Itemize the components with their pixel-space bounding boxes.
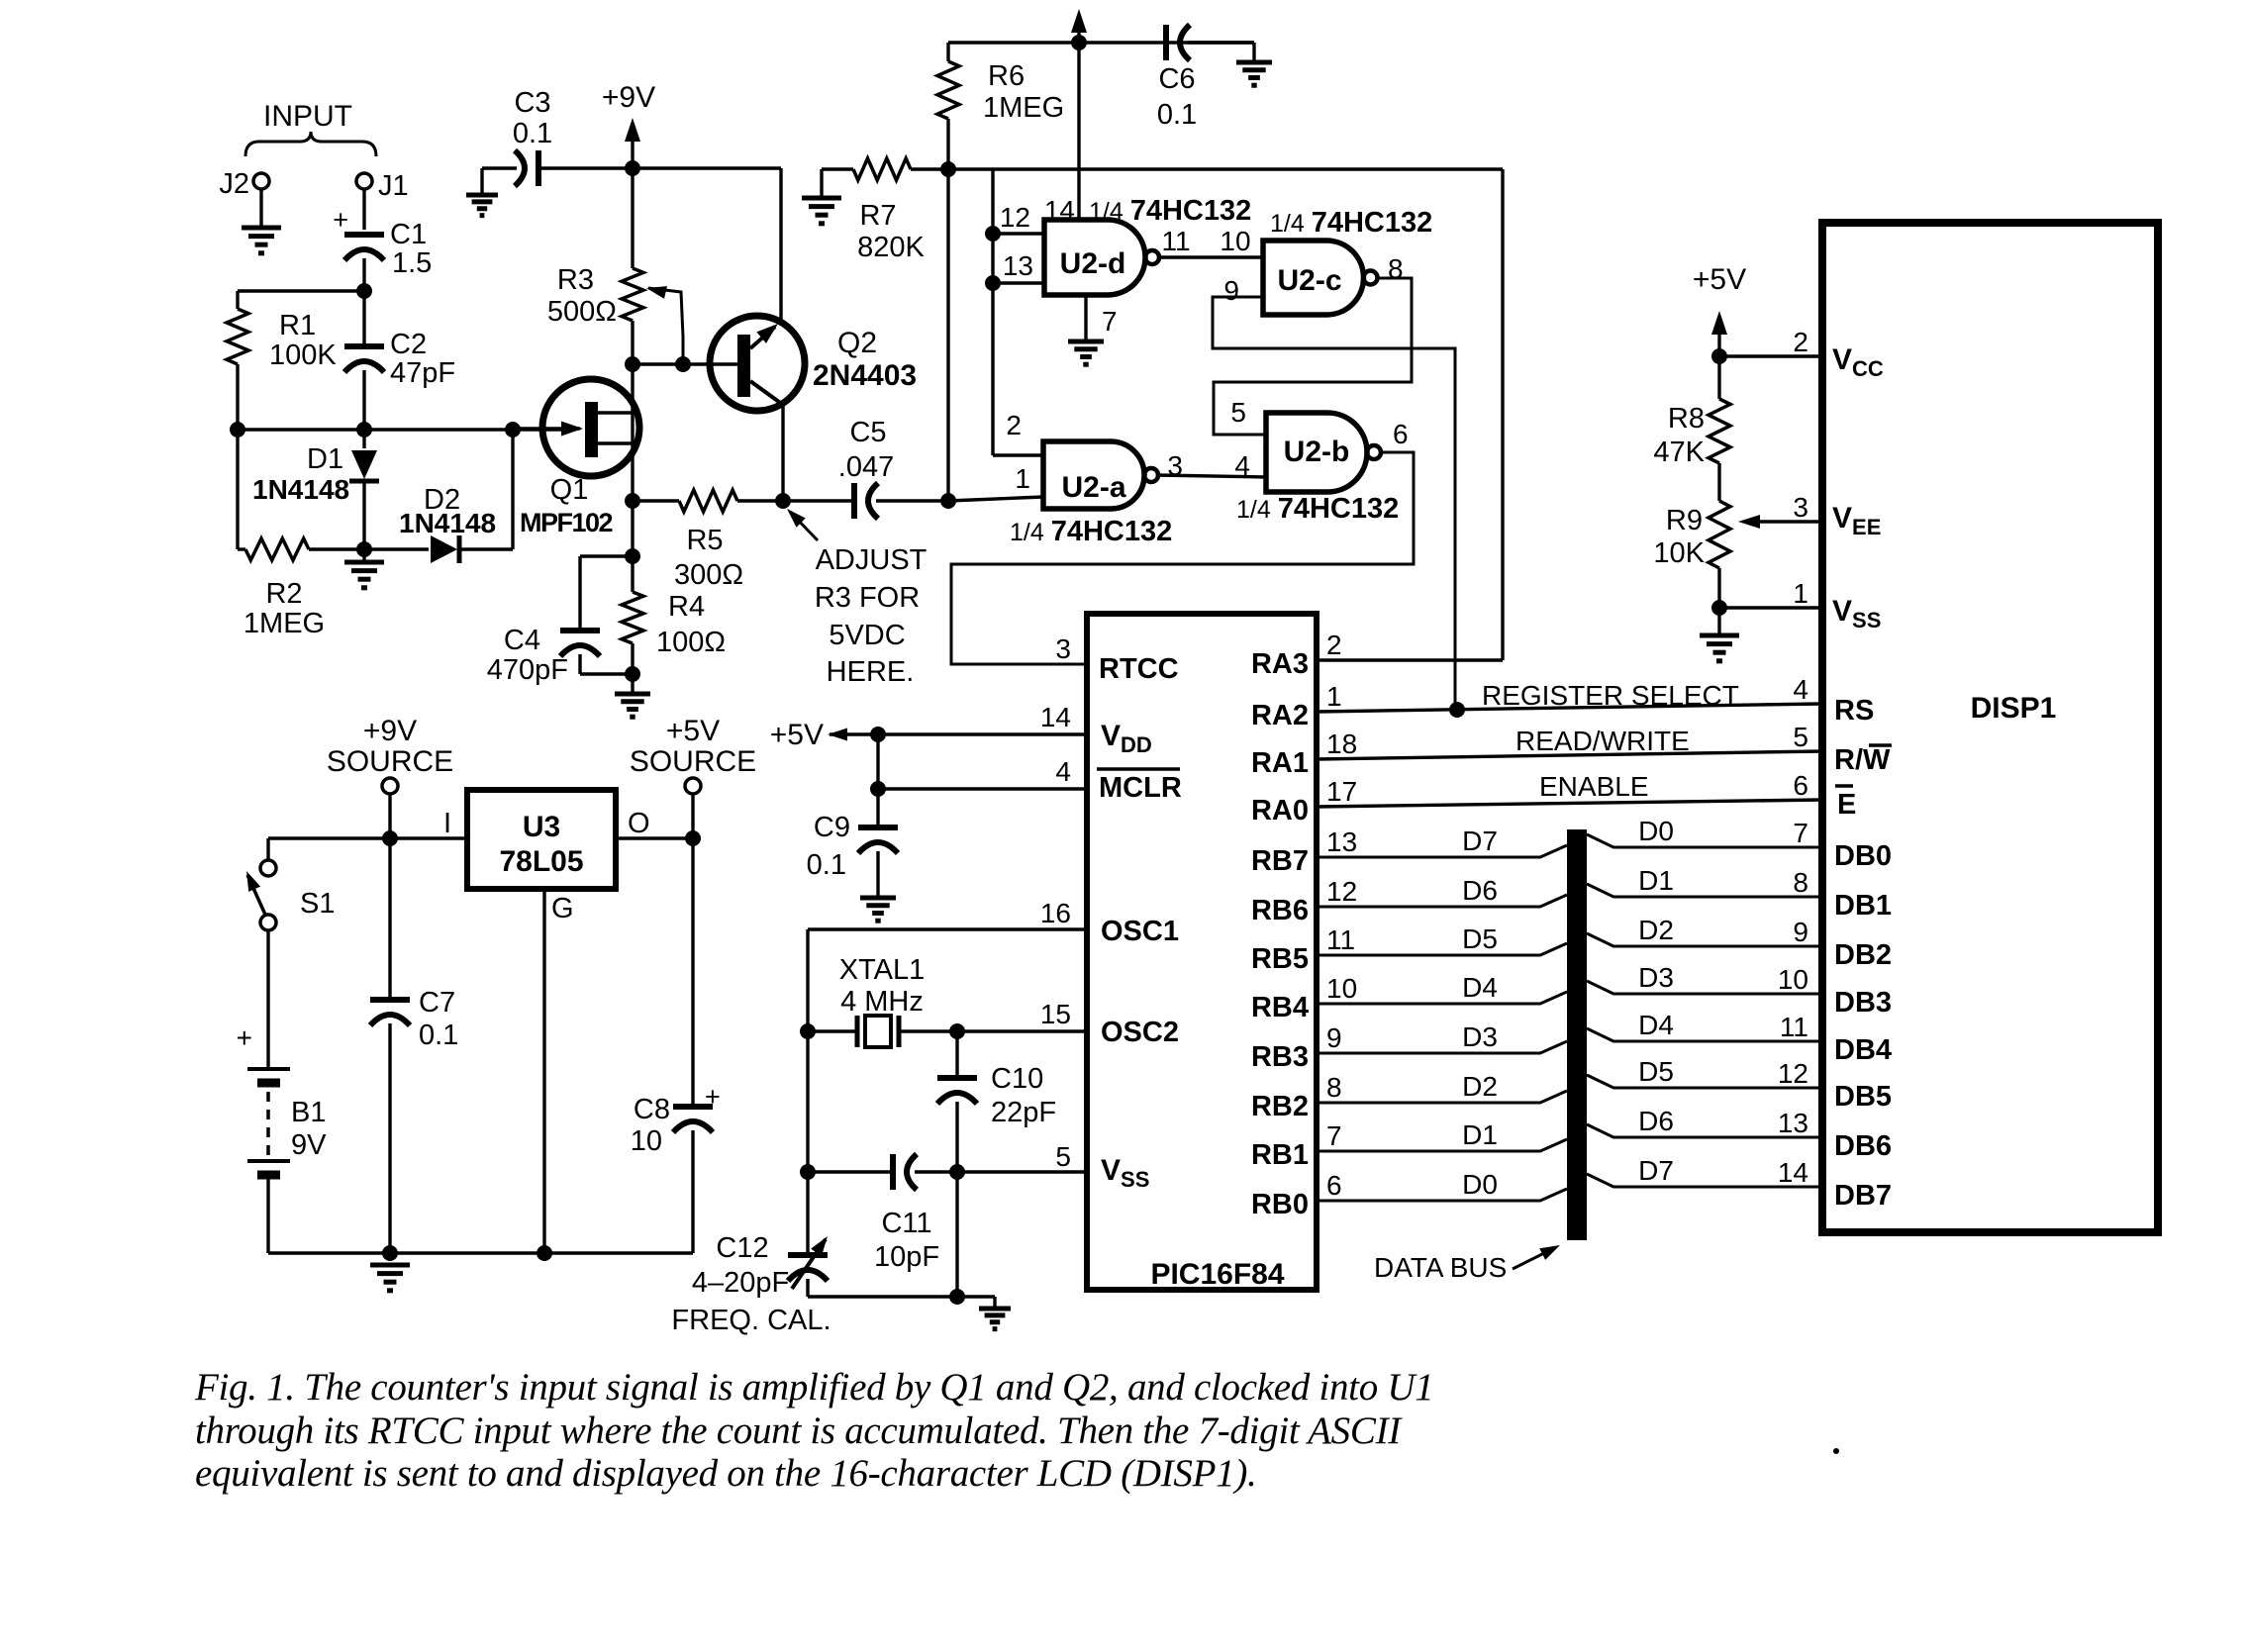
svg-text:R3: R3 <box>557 264 594 296</box>
svg-text:6: 6 <box>1793 770 1808 801</box>
svg-text:Q2: Q2 <box>837 327 877 359</box>
svg-text:11: 11 <box>1780 1012 1808 1042</box>
svg-text:4: 4 <box>1055 756 1071 787</box>
svg-text:RA3: RA3 <box>1251 648 1309 680</box>
svg-text:D4: D4 <box>1638 1010 1674 1040</box>
svg-text:100Ω: 100Ω <box>656 627 726 658</box>
svg-text:through its RTCC input where t: through its RTCC input where the count i… <box>195 1409 1403 1452</box>
svg-text:9V: 9V <box>291 1129 327 1161</box>
svg-text:500Ω: 500Ω <box>547 296 617 328</box>
svg-text:DB0: DB0 <box>1834 840 1892 872</box>
svg-text:U3: U3 <box>523 811 560 843</box>
svg-text:0.1: 0.1 <box>513 118 552 149</box>
svg-text:3: 3 <box>1793 492 1808 523</box>
svg-text:Q1: Q1 <box>550 474 589 506</box>
svg-text:12: 12 <box>1778 1058 1808 1089</box>
svg-text:17: 17 <box>1326 776 1357 807</box>
svg-text:C1: C1 <box>390 219 427 250</box>
svg-text:18: 18 <box>1326 729 1357 759</box>
svg-text:47pF: 47pF <box>390 357 455 389</box>
svg-text:8: 8 <box>1793 867 1808 898</box>
svg-text:1: 1 <box>1015 463 1030 494</box>
svg-text:Fig. 1. The counter's input si: Fig. 1. The counter's input signal is am… <box>194 1366 1433 1409</box>
svg-text:2: 2 <box>1793 327 1808 357</box>
svg-text:9: 9 <box>1223 275 1239 306</box>
svg-text:0.1: 0.1 <box>1157 99 1197 131</box>
svg-text:RA1: RA1 <box>1251 747 1309 779</box>
svg-text:+5V: +5V <box>770 719 824 751</box>
svg-text:2: 2 <box>1326 630 1342 660</box>
svg-text:10: 10 <box>1778 964 1808 995</box>
svg-text:47K: 47K <box>1653 437 1705 468</box>
svg-text:D1: D1 <box>1462 1119 1498 1150</box>
svg-text:R5: R5 <box>686 525 723 556</box>
svg-text:ADJUST: ADJUST <box>816 544 928 576</box>
svg-text:D1: D1 <box>1638 865 1674 896</box>
svg-text:RB6: RB6 <box>1251 895 1309 926</box>
svg-text:D1: D1 <box>307 443 343 475</box>
svg-text:4: 4 <box>1234 450 1250 481</box>
svg-text:1/4 74HC132: 1/4 74HC132 <box>1010 516 1172 547</box>
svg-text:XTAL1: XTAL1 <box>839 954 926 986</box>
svg-text:R7: R7 <box>859 200 896 232</box>
svg-text:equivalent is sent to and disp: equivalent is sent to and displayed on t… <box>195 1452 1257 1495</box>
svg-text:RA0: RA0 <box>1251 795 1309 826</box>
svg-text:820K: 820K <box>857 232 925 263</box>
svg-text:MPF102: MPF102 <box>520 508 613 537</box>
svg-text:OSC2: OSC2 <box>1101 1017 1179 1048</box>
svg-text:R3 FOR: R3 FOR <box>815 582 920 614</box>
svg-text:DB6: DB6 <box>1834 1130 1892 1162</box>
svg-text:D2: D2 <box>1462 1071 1498 1102</box>
svg-text:5: 5 <box>1793 722 1808 752</box>
svg-text:RB2: RB2 <box>1251 1091 1309 1122</box>
svg-text:+9V: +9V <box>363 715 417 747</box>
svg-text:1: 1 <box>1326 681 1342 712</box>
svg-text:D3: D3 <box>1638 962 1674 993</box>
svg-text:R6: R6 <box>988 60 1025 92</box>
svg-text:10: 10 <box>1220 226 1250 256</box>
svg-text:4: 4 <box>1793 674 1808 705</box>
svg-text:U2-b: U2-b <box>1284 436 1350 468</box>
svg-text:1: 1 <box>1793 578 1808 609</box>
svg-text:1/4 74HC132: 1/4 74HC132 <box>1089 195 1251 227</box>
svg-text:9: 9 <box>1793 917 1808 947</box>
svg-text:1/4 74HC132: 1/4 74HC132 <box>1270 207 1432 239</box>
svg-text:C2: C2 <box>390 329 427 360</box>
svg-text:+: + <box>705 1082 721 1112</box>
svg-text:J1: J1 <box>378 170 409 202</box>
svg-text:C7: C7 <box>419 987 455 1019</box>
svg-text:R2: R2 <box>265 578 302 610</box>
svg-text:C9: C9 <box>814 812 850 843</box>
svg-text:DB2: DB2 <box>1834 939 1892 971</box>
svg-text:1N4148: 1N4148 <box>399 508 496 538</box>
svg-text:PIC16F84: PIC16F84 <box>1150 1258 1284 1291</box>
svg-text:C8: C8 <box>634 1094 670 1125</box>
svg-text:D0: D0 <box>1638 816 1674 846</box>
svg-text:11: 11 <box>1326 924 1355 955</box>
svg-text:+: + <box>237 1022 252 1053</box>
svg-text:0.1: 0.1 <box>419 1020 458 1051</box>
svg-text:300Ω: 300Ω <box>674 559 743 591</box>
svg-text:14: 14 <box>1040 702 1071 732</box>
svg-text:RS: RS <box>1834 695 1874 727</box>
svg-text:R/W: R/W <box>1834 744 1891 776</box>
svg-text:2: 2 <box>1006 410 1022 440</box>
svg-text:U2-a: U2-a <box>1061 471 1125 504</box>
svg-text:5VDC: 5VDC <box>829 620 905 651</box>
svg-text:13: 13 <box>1003 250 1033 281</box>
svg-text:C4: C4 <box>504 625 540 656</box>
svg-text:1N4148: 1N4148 <box>252 474 349 505</box>
svg-text:D6: D6 <box>1462 875 1498 906</box>
svg-text:RB5: RB5 <box>1251 943 1309 975</box>
svg-text:O: O <box>628 808 650 839</box>
svg-text:D5: D5 <box>1462 923 1498 954</box>
svg-text:470pF: 470pF <box>487 654 568 686</box>
svg-text:G: G <box>551 893 574 924</box>
svg-text:7: 7 <box>1793 818 1808 848</box>
svg-text:SOURCE: SOURCE <box>327 745 453 778</box>
svg-text:16: 16 <box>1040 898 1071 928</box>
svg-text:DB7: DB7 <box>1834 1180 1892 1212</box>
svg-text:10: 10 <box>631 1125 662 1157</box>
svg-text:U2-d: U2-d <box>1060 247 1126 280</box>
svg-text:6: 6 <box>1393 419 1409 449</box>
svg-text:D4: D4 <box>1462 972 1498 1003</box>
svg-text:DB5: DB5 <box>1834 1081 1892 1113</box>
svg-text:RB7: RB7 <box>1251 845 1309 877</box>
svg-text:D7: D7 <box>1462 826 1498 856</box>
svg-text:DB1: DB1 <box>1834 890 1892 922</box>
svg-text:12: 12 <box>1000 202 1030 233</box>
svg-text:R1: R1 <box>279 310 316 341</box>
svg-text:RTCC: RTCC <box>1099 653 1179 685</box>
svg-text:10: 10 <box>1326 973 1357 1004</box>
svg-text:J2: J2 <box>219 168 249 200</box>
svg-text:+5V: +5V <box>1693 263 1746 296</box>
svg-text:R4: R4 <box>668 591 705 623</box>
svg-text:8: 8 <box>1326 1072 1342 1103</box>
svg-text:100K: 100K <box>269 340 337 371</box>
svg-text:13: 13 <box>1778 1108 1808 1138</box>
svg-text:D0: D0 <box>1462 1169 1498 1200</box>
svg-text:DB3: DB3 <box>1834 987 1892 1019</box>
svg-text:.047: .047 <box>838 451 894 483</box>
svg-text:RB0: RB0 <box>1251 1189 1309 1220</box>
svg-text:U2-c: U2-c <box>1277 264 1341 297</box>
svg-text:3: 3 <box>1055 633 1071 664</box>
svg-text:4–20pF: 4–20pF <box>692 1267 789 1299</box>
svg-text:DB4: DB4 <box>1834 1034 1892 1066</box>
svg-text:D5: D5 <box>1638 1056 1674 1087</box>
svg-text:+: + <box>333 205 348 235</box>
svg-text:10K: 10K <box>1653 537 1705 569</box>
svg-text:RA2: RA2 <box>1251 700 1309 731</box>
svg-text:1MEG: 1MEG <box>983 92 1064 124</box>
svg-text:C12: C12 <box>716 1232 768 1264</box>
svg-text:5: 5 <box>1055 1141 1071 1172</box>
svg-text:C5: C5 <box>849 417 886 448</box>
svg-text:5: 5 <box>1230 397 1246 428</box>
svg-text:14: 14 <box>1778 1157 1808 1188</box>
svg-text:C11: C11 <box>881 1208 931 1239</box>
svg-text:1.5: 1.5 <box>392 247 432 279</box>
svg-text:D7: D7 <box>1638 1155 1674 1186</box>
svg-text:9: 9 <box>1326 1022 1342 1053</box>
svg-text:MCLR: MCLR <box>1099 772 1182 804</box>
svg-text:INPUT: INPUT <box>263 100 352 133</box>
svg-text:C6: C6 <box>1158 63 1195 95</box>
svg-text:6: 6 <box>1326 1170 1342 1201</box>
svg-text:RB1: RB1 <box>1251 1139 1309 1171</box>
svg-text:0.1: 0.1 <box>807 849 846 881</box>
svg-text:DISP1: DISP1 <box>1971 692 2057 725</box>
svg-text:11: 11 <box>1161 226 1190 256</box>
svg-text:7: 7 <box>1326 1120 1342 1151</box>
svg-text:1MEG: 1MEG <box>244 608 325 639</box>
svg-text:I: I <box>443 808 451 839</box>
svg-text:4 MHz: 4 MHz <box>840 986 924 1018</box>
svg-text:DATA BUS: DATA BUS <box>1374 1252 1507 1283</box>
svg-text:3: 3 <box>1167 450 1183 481</box>
svg-text:1/4 74HC132: 1/4 74HC132 <box>1236 493 1399 525</box>
svg-text:B1: B1 <box>291 1097 326 1128</box>
svg-text:R8: R8 <box>1668 403 1705 435</box>
svg-text:C10: C10 <box>991 1063 1043 1095</box>
svg-text:12: 12 <box>1326 876 1357 907</box>
svg-text:READ/WRITE: READ/WRITE <box>1515 726 1690 756</box>
svg-text:D3: D3 <box>1462 1021 1498 1052</box>
svg-text:HERE.: HERE. <box>827 656 915 688</box>
svg-text:10pF: 10pF <box>874 1241 939 1273</box>
svg-text:SOURCE: SOURCE <box>630 745 756 778</box>
svg-text:C3: C3 <box>514 87 550 119</box>
svg-text:+5V: +5V <box>666 715 720 747</box>
svg-text:OSC1: OSC1 <box>1101 916 1179 947</box>
svg-text:R9: R9 <box>1666 505 1703 536</box>
svg-text:REGISTER SELECT: REGISTER SELECT <box>1482 680 1739 711</box>
svg-text:E: E <box>1837 789 1856 821</box>
svg-text:2N4403: 2N4403 <box>813 359 917 392</box>
svg-text:22pF: 22pF <box>991 1097 1056 1128</box>
svg-text:+9V: +9V <box>602 81 655 114</box>
svg-text:D2: D2 <box>1638 915 1674 945</box>
svg-text:ENABLE: ENABLE <box>1539 771 1649 802</box>
svg-text:RB4: RB4 <box>1251 992 1309 1023</box>
svg-text:14: 14 <box>1044 195 1075 226</box>
svg-text:RB3: RB3 <box>1251 1041 1309 1073</box>
svg-text:FREQ. CAL.: FREQ. CAL. <box>671 1305 830 1336</box>
svg-text:8: 8 <box>1388 253 1404 284</box>
svg-text:7: 7 <box>1102 306 1118 337</box>
svg-text:13: 13 <box>1326 826 1357 857</box>
svg-text:S1: S1 <box>300 888 335 920</box>
svg-text:15: 15 <box>1040 999 1071 1029</box>
svg-text:78L05: 78L05 <box>499 845 583 878</box>
svg-text:D6: D6 <box>1638 1106 1674 1136</box>
